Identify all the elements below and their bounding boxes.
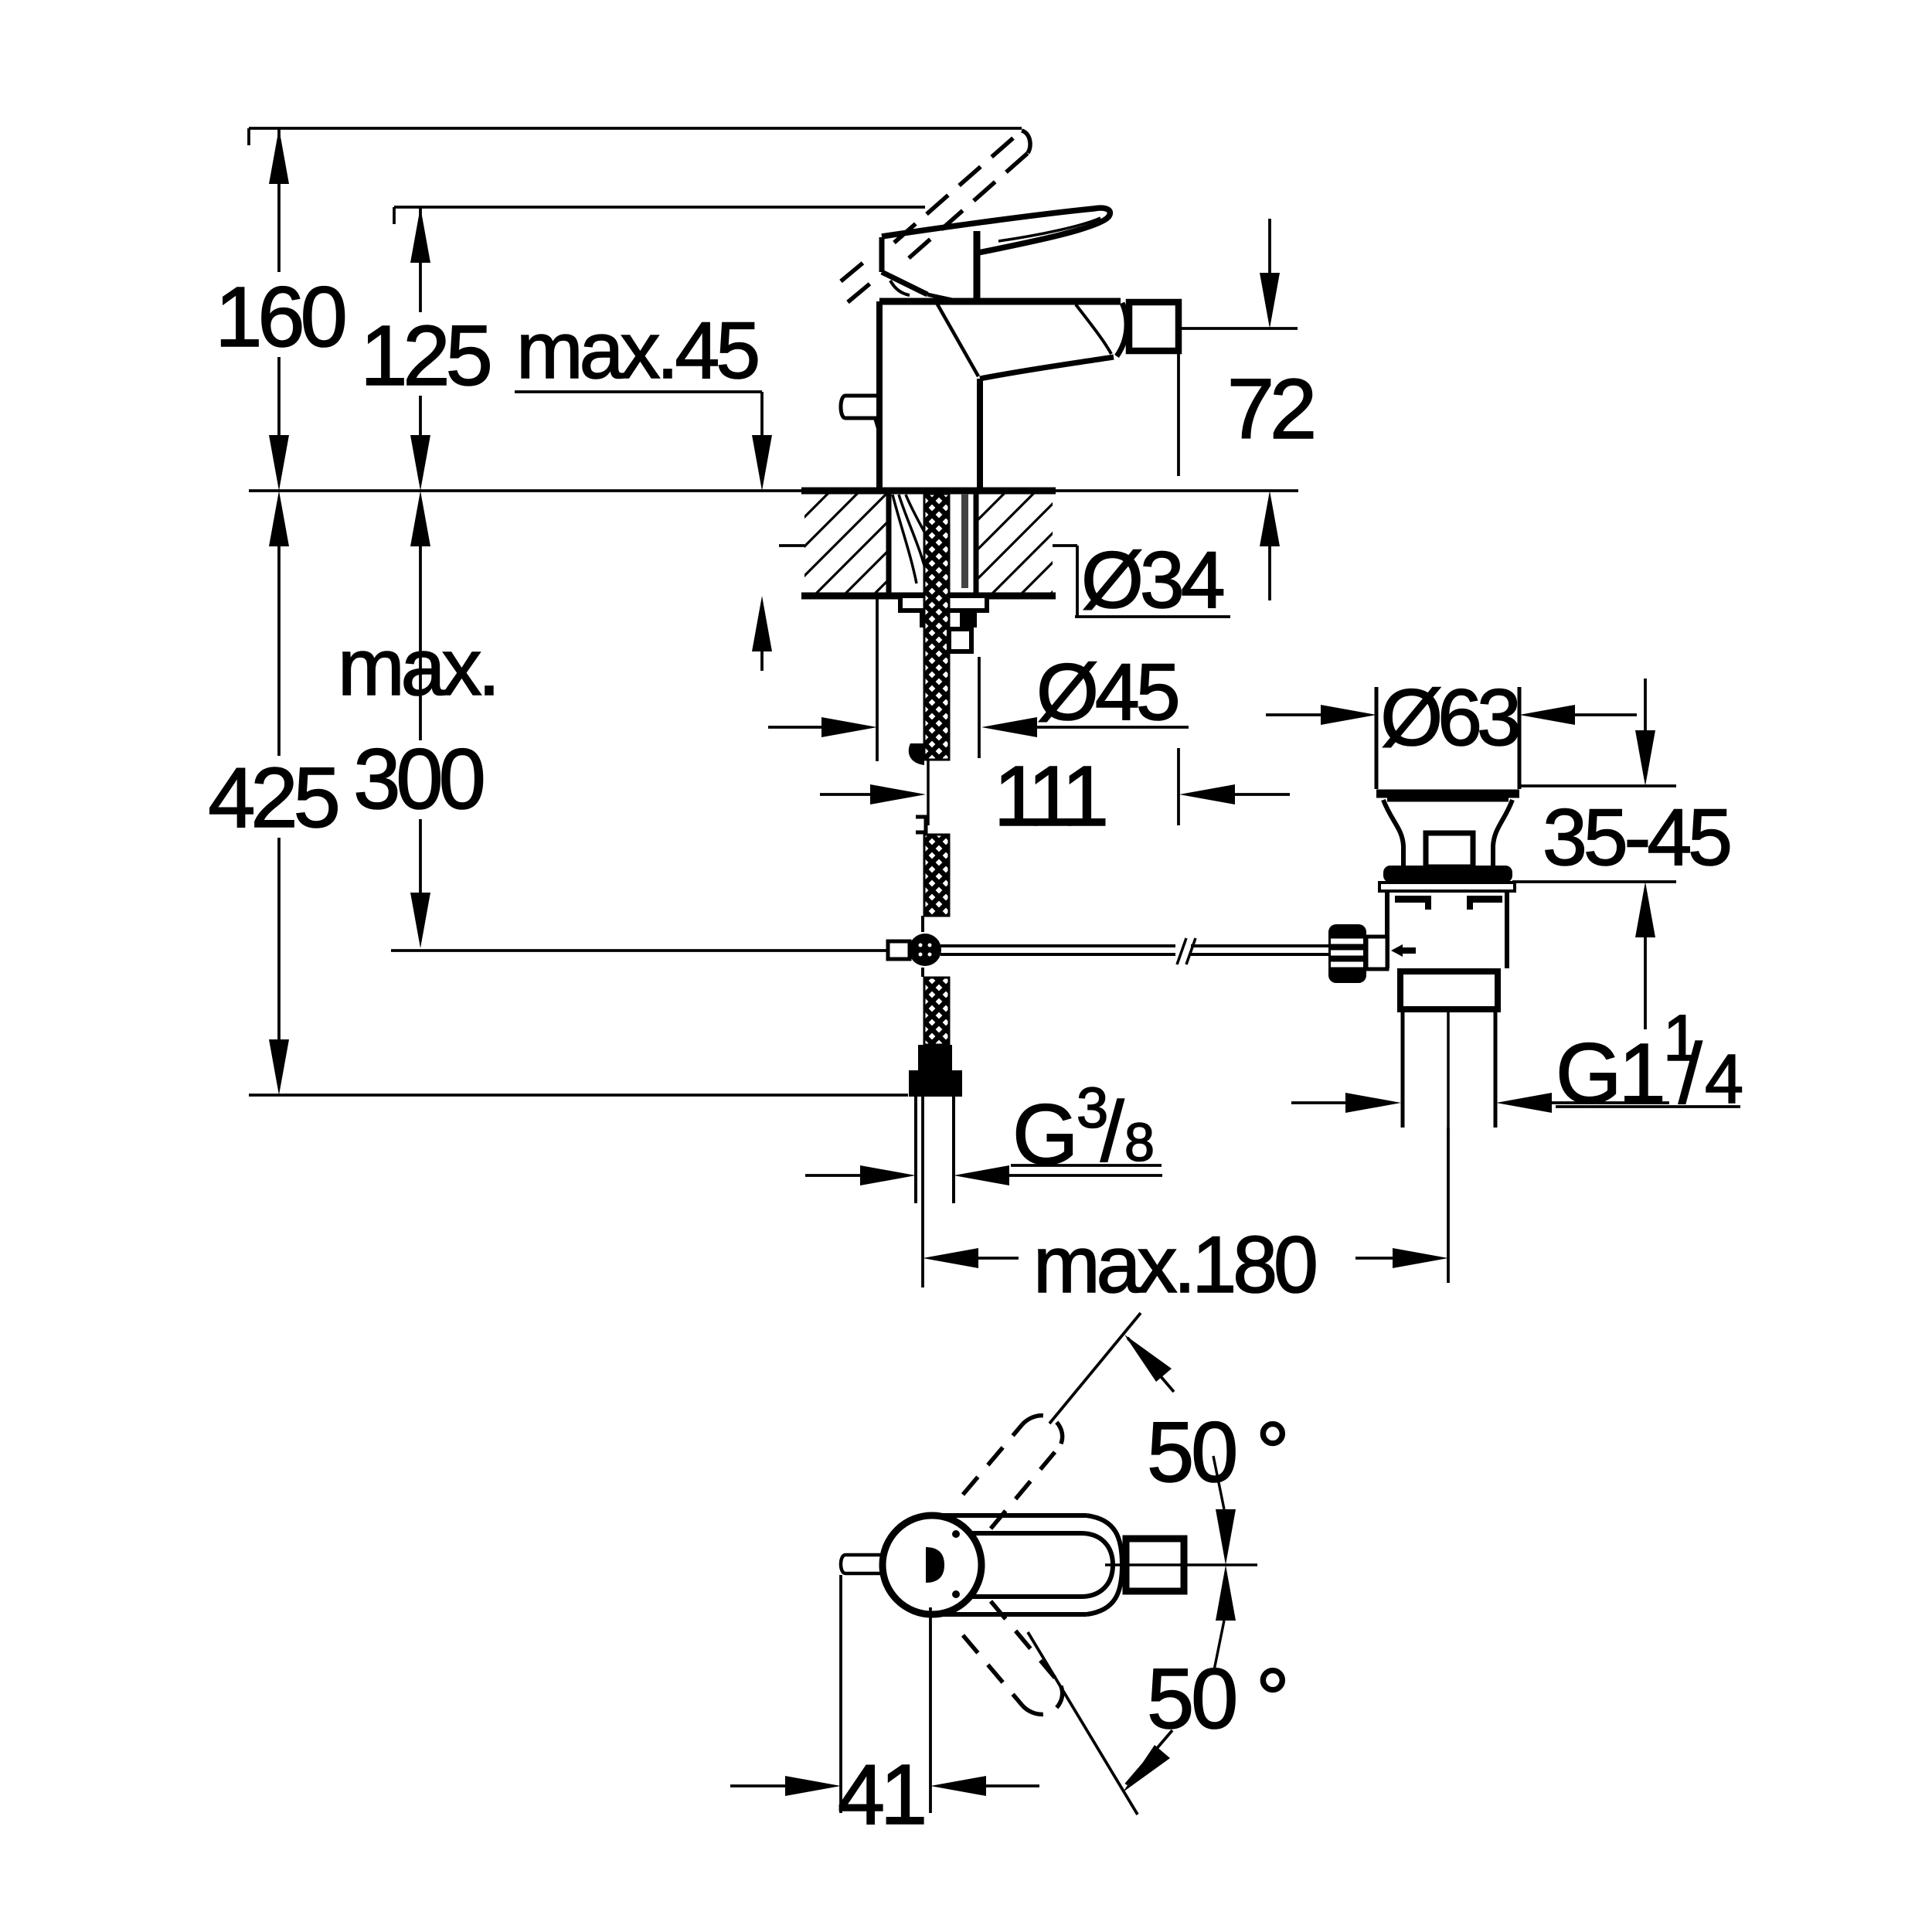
svg-text:max.45: max.45: [516, 306, 757, 396]
svg-text:72: 72: [1227, 362, 1313, 457]
svg-text:4: 4: [1705, 1041, 1743, 1118]
svg-text:/: /: [1100, 1084, 1124, 1179]
svg-text:125: 125: [360, 308, 489, 403]
svg-text:50 °: 50 °: [1147, 1405, 1287, 1500]
svg-text:8: 8: [1124, 1112, 1155, 1172]
svg-text:/: /: [1679, 1026, 1702, 1121]
svg-text:Ø34: Ø34: [1081, 536, 1223, 625]
svg-text:111: 111: [994, 749, 1105, 844]
svg-text:425: 425: [208, 750, 337, 845]
svg-text:Ø63: Ø63: [1380, 673, 1519, 763]
svg-text:41: 41: [838, 1747, 923, 1842]
svg-text:Ø45: Ø45: [1036, 648, 1178, 737]
svg-text:max.180: max.180: [1033, 1220, 1315, 1310]
svg-text:160: 160: [215, 270, 344, 365]
svg-text:300: 300: [353, 732, 482, 827]
svg-text:max.: max.: [338, 623, 496, 713]
svg-text:35-45: 35-45: [1543, 793, 1730, 883]
svg-text:G1: G1: [1556, 1026, 1663, 1121]
svg-text:50 °: 50 °: [1147, 1651, 1287, 1747]
svg-text:G: G: [1012, 1087, 1079, 1182]
